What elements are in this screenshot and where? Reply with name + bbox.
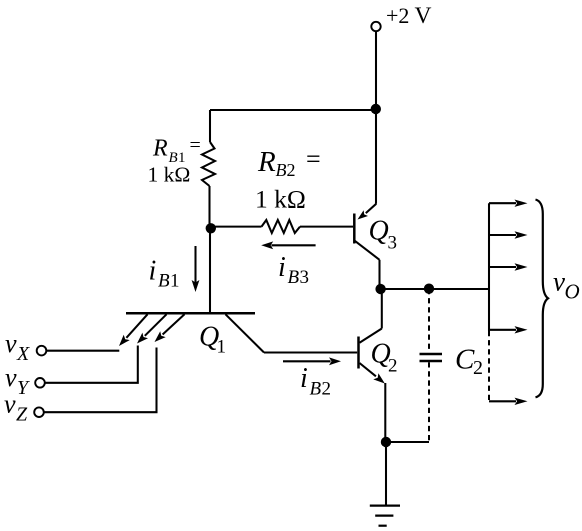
svg-text:1: 1 <box>217 337 227 358</box>
wire: ground node to capacitor branch <box>386 441 429 443</box>
svg-text:i: i <box>278 252 286 283</box>
svg-text:3: 3 <box>300 267 310 288</box>
svg-text:=: = <box>190 135 201 157</box>
wire: output node to output bar <box>381 288 489 290</box>
output arrow 5 <box>489 400 516 402</box>
wire: top horizontal from RB1 to supply node <box>210 109 376 111</box>
wire: RB1 top lead <box>209 110 211 142</box>
arrow iB2 <box>283 360 331 362</box>
capacitor C2 bottom plate <box>420 360 443 363</box>
Q2 collector diagonal <box>360 329 382 343</box>
output arrow 2 <box>489 234 516 236</box>
wire: ground lead <box>385 442 387 505</box>
svg-text:3: 3 <box>388 233 398 254</box>
node: capacitor tap <box>424 284 434 294</box>
Q1 emitter 1 <box>126 314 147 338</box>
Q3 collector diagonal <box>355 241 380 260</box>
svg-text:2: 2 <box>287 160 296 180</box>
transistor Q2 base bar <box>357 337 360 369</box>
brace for vO <box>536 200 549 398</box>
svg-text:2: 2 <box>322 379 332 400</box>
power terminal +2 V <box>371 22 380 31</box>
wire: Q3 collector down to output node <box>378 260 380 289</box>
arrow iB3 <box>272 244 316 246</box>
Q1 emitter 3 <box>163 314 185 334</box>
svg-text:1 kΩ: 1 kΩ <box>255 185 306 214</box>
ground <box>370 505 400 507</box>
wire: Q2 emitter down to node <box>384 383 386 442</box>
svg-text:R: R <box>152 136 168 162</box>
svg-text:R: R <box>257 146 276 178</box>
svg-text:=: = <box>306 145 321 174</box>
svg-text:O: O <box>565 280 580 304</box>
svg-text:V: V <box>415 3 432 29</box>
wire: RB1 bottom lead <box>208 186 210 229</box>
svg-text:v: v <box>553 267 565 297</box>
svg-text:B: B <box>288 267 300 288</box>
wire: vY to emitter 2 <box>45 346 138 383</box>
svg-text:Q: Q <box>369 216 389 247</box>
output arrow 4 <box>489 329 516 331</box>
svg-text:2: 2 <box>388 356 398 377</box>
arrow iB1 <box>194 246 196 283</box>
svg-text:C: C <box>455 344 475 376</box>
input terminal vY <box>35 378 45 388</box>
node: base node of Q1 / RB1 / RB2 <box>206 223 216 233</box>
dashed wire: capacitor bottom lead <box>428 362 430 442</box>
svg-text:v: v <box>5 329 17 358</box>
svg-text:B: B <box>276 160 287 180</box>
wire: vZ to emitter 3 <box>44 348 156 413</box>
svg-text:B: B <box>310 379 322 400</box>
resistor RB2 <box>262 220 301 233</box>
output bar dashed segment <box>488 331 490 401</box>
wire: Q1 collector to Q2 base <box>264 351 357 353</box>
svg-text:Z: Z <box>16 403 28 425</box>
output arrow 1 <box>489 202 516 204</box>
svg-text:+2: +2 <box>386 3 409 28</box>
svg-text:1 kΩ: 1 kΩ <box>148 163 191 187</box>
Q2 emitter diagonal with arrow <box>360 363 376 376</box>
node: supply junction <box>371 104 381 114</box>
Q1 collector diagonal <box>226 314 265 352</box>
output bar solid segment <box>488 203 490 331</box>
input terminal vX <box>37 346 47 356</box>
input terminal vZ <box>34 407 44 417</box>
svg-text:B: B <box>158 271 170 292</box>
Q3 emitter diagonal with arrow into bar <box>366 204 377 213</box>
svg-text:i: i <box>300 363 308 394</box>
node: output node (Q3 emitter / Q2 collector) <box>375 284 385 294</box>
resistor RB1 <box>202 142 215 186</box>
svg-text:Y: Y <box>17 377 30 399</box>
capacitor C2 top plate <box>420 353 443 356</box>
svg-text:v: v <box>5 363 17 392</box>
svg-text:1: 1 <box>170 271 180 292</box>
Q1 emitter 2 <box>145 314 167 336</box>
svg-text:2: 2 <box>473 357 483 379</box>
wire: vX to emitter 1 <box>47 350 120 352</box>
transistor Q3 base bar <box>353 214 356 244</box>
wire: node down to Q1 base <box>209 229 211 314</box>
node: Q2 emitter / ground <box>381 437 391 447</box>
wire: Q2 collector up to output node <box>381 289 383 329</box>
wire: +2V terminal down through supply node to Q3 <box>375 31 377 204</box>
dashed wire: capacitor top lead <box>428 289 430 353</box>
svg-text:v: v <box>4 390 16 419</box>
wire: RB2 right lead to Q3 base <box>300 226 353 228</box>
svg-text:X: X <box>16 343 30 365</box>
svg-text:i: i <box>149 256 157 287</box>
transistor Q1 base bar <box>126 312 255 315</box>
output arrow 3 <box>489 266 516 268</box>
wire: RB2 left lead <box>211 226 262 228</box>
